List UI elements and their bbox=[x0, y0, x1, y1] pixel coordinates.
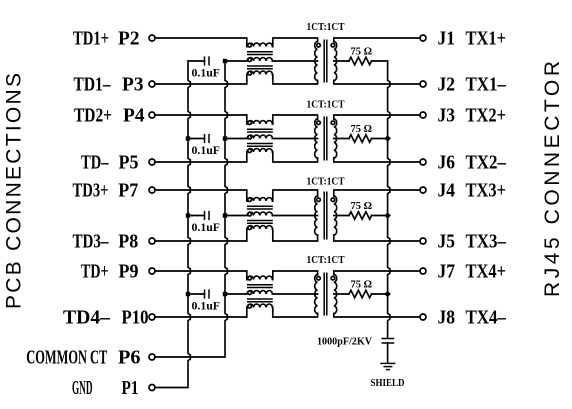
svg-text:TX2–: TX2– bbox=[466, 151, 507, 173]
svg-text:1CT:1CT: 1CT:1CT bbox=[307, 255, 345, 266]
junction on bus at y=216 bbox=[384, 212, 391, 219]
wire secondary center tap to resistor 3 bbox=[334, 215, 349, 217]
wire TD row 2 top (pin to choke) bbox=[155, 115, 247, 124]
choke L1 core lines bbox=[247, 51, 273, 53]
wire secondary top to J pin row 2 bbox=[334, 115, 420, 119]
svg-text:J2: J2 bbox=[438, 73, 456, 95]
GND rail (vertical, with crossover hops) bbox=[155, 61, 190, 388]
pin terminal P10 bbox=[149, 314, 155, 320]
svg-text:P7: P7 bbox=[118, 180, 138, 202]
wire secondary center tap to resistor 4 bbox=[334, 293, 349, 295]
svg-text:1CT:1CT: 1CT:1CT bbox=[307, 22, 345, 33]
transformer T3 primary winding bbox=[315, 196, 318, 235]
pin terminal J3 bbox=[420, 112, 426, 118]
transformer T1 core bbox=[323, 40, 325, 83]
svg-text:TD3–: TD3– bbox=[73, 231, 110, 253]
svg-text:75 Ω: 75 Ω bbox=[351, 201, 373, 212]
wire TD row 4 bottom (pin to choke) bbox=[155, 308, 247, 318]
svg-text:0.1uF: 0.1uF bbox=[192, 299, 221, 313]
wire secondary center tap to resistor 2 bbox=[334, 138, 349, 140]
capacitor 0.1uF #3 plates bbox=[204, 211, 206, 220]
svg-text:P6: P6 bbox=[118, 347, 141, 369]
junction at (225,216) bbox=[223, 213, 227, 217]
pin terminal P4 bbox=[149, 112, 155, 118]
svg-text:J7: J7 bbox=[438, 260, 456, 282]
capacitor 0.1uF #2 left stub bbox=[188, 138, 205, 140]
resistor 75 Ohm #4 bbox=[349, 290, 372, 298]
wire choke to transformer row 2 top bbox=[273, 115, 318, 124]
svg-text:J4: J4 bbox=[438, 179, 456, 201]
common-mode choke L1 middle winding bbox=[225, 58, 272, 61]
capacitor 1000pF/2KV bbox=[382, 338, 395, 340]
svg-text:P8: P8 bbox=[118, 231, 138, 253]
wire resistor 1 to bus bbox=[372, 60, 388, 62]
svg-text:TX4+: TX4+ bbox=[466, 260, 507, 282]
wire choke to transformer center tap row 2 bbox=[272, 138, 317, 140]
svg-text:RJ45 CONNECTOR: RJ45 CONNECTOR bbox=[541, 61, 564, 297]
common-mode choke L1 bottom winding bbox=[247, 71, 272, 74]
wire secondary top to J pin row 3 bbox=[334, 190, 420, 196]
capacitor 0.1uF #1 left stub bbox=[188, 60, 205, 62]
capacitor 0.1uF #4 left stub bbox=[188, 293, 205, 295]
wire choke to transformer row 3 bottom bbox=[273, 229, 318, 241]
common-mode choke L1 top winding bbox=[247, 43, 272, 46]
common-mode choke L4 top winding bbox=[247, 276, 272, 279]
wire resistor 2 to bus bbox=[372, 138, 388, 140]
svg-text:TD1+: TD1+ bbox=[73, 28, 109, 50]
svg-text:TX3+: TX3+ bbox=[466, 179, 507, 201]
svg-text:J1: J1 bbox=[438, 27, 456, 49]
wire TD row 1 bottom (pin to choke) bbox=[155, 75, 247, 85]
svg-text:P1: P1 bbox=[122, 377, 139, 399]
wire TD row 3 top (pin to choke) bbox=[155, 190, 247, 201]
wire choke to transformer center tap row 1 bbox=[272, 60, 317, 62]
pin terminal J6 bbox=[420, 159, 426, 165]
wire choke to transformer row 3 top bbox=[273, 190, 318, 201]
svg-text:P3: P3 bbox=[122, 74, 144, 96]
transformer T1 secondary winding bbox=[334, 42, 337, 81]
svg-text:0.1uF: 0.1uF bbox=[192, 143, 221, 157]
transformer T2 primary winding bbox=[315, 119, 318, 158]
svg-text:P10: P10 bbox=[122, 307, 149, 329]
svg-text:P9: P9 bbox=[119, 261, 139, 283]
capacitor 0.1uF #3 left stub bbox=[188, 215, 205, 217]
pin terminal J7 bbox=[420, 268, 426, 274]
pin terminal P3 bbox=[149, 81, 155, 87]
COMMON CT rail (vertical, with crossover hops) bbox=[155, 61, 227, 357]
transformer T1 primary winding bbox=[315, 42, 318, 81]
pin terminal P2 bbox=[149, 35, 155, 41]
choke L2 core lines bbox=[247, 128, 273, 130]
svg-text:TX4–: TX4– bbox=[466, 306, 507, 328]
svg-text:0.1uF: 0.1uF bbox=[192, 66, 221, 80]
svg-text:GND: GND bbox=[72, 377, 93, 399]
junction at (188,294) bbox=[186, 292, 190, 296]
svg-text:TD4–: TD4– bbox=[63, 307, 111, 329]
wire resistor 3 to bus bbox=[372, 215, 388, 217]
capacitor 0.1uF #1 plates bbox=[204, 56, 206, 65]
wire TD row 1 top (pin to choke) bbox=[155, 38, 247, 47]
common-mode choke L4 bottom winding bbox=[247, 304, 272, 307]
svg-text:1000pF/2KV: 1000pF/2KV bbox=[317, 336, 372, 348]
transformer T3 core bbox=[323, 192, 325, 240]
svg-text:J5: J5 bbox=[438, 230, 456, 252]
junction at (225,294) bbox=[223, 292, 227, 296]
junction at (188,138) bbox=[186, 136, 190, 140]
wire TD row 3 bottom (pin to choke) bbox=[155, 229, 247, 241]
svg-text:TX1+: TX1+ bbox=[466, 27, 507, 49]
transformer T3 secondary winding bbox=[334, 196, 337, 235]
wire secondary bottom to J pin row 2 bbox=[334, 158, 420, 162]
pin terminal J1 bbox=[420, 35, 426, 41]
choke L4 core lines bbox=[247, 284, 273, 286]
pin terminal P6 bbox=[149, 354, 155, 360]
junction at (188,216) bbox=[186, 213, 190, 217]
resistor 75 Ohm #2 bbox=[349, 135, 372, 143]
svg-text:0.1uF: 0.1uF bbox=[192, 220, 221, 234]
transformer T4 secondary winding bbox=[334, 275, 337, 314]
svg-text:1CT:1CT: 1CT:1CT bbox=[307, 100, 345, 111]
wire choke to transformer row 1 bottom bbox=[273, 75, 318, 85]
pin terminal J8 bbox=[420, 314, 426, 320]
wire secondary bottom to J pin row 4 bbox=[334, 314, 420, 318]
wire secondary center tap to resistor 1 bbox=[334, 60, 349, 62]
wire secondary top to J pin row 1 bbox=[334, 38, 420, 42]
common-mode choke L3 bottom winding bbox=[247, 226, 272, 229]
svg-text:TD+: TD+ bbox=[81, 261, 109, 283]
junction on bus at y=138 bbox=[384, 135, 391, 142]
svg-text:TX2+: TX2+ bbox=[466, 104, 507, 126]
pin terminal P9 bbox=[149, 268, 155, 274]
common-mode choke L4 middle winding bbox=[225, 291, 272, 294]
svg-text:J6: J6 bbox=[438, 151, 456, 173]
svg-text:TD1–: TD1– bbox=[74, 74, 112, 96]
wire resistor 4 to bus bbox=[372, 293, 388, 295]
svg-text:TD–: TD– bbox=[81, 152, 109, 174]
pin terminal P8 bbox=[149, 238, 155, 244]
pin terminal P5 bbox=[149, 159, 155, 165]
wire choke to transformer row 4 bottom bbox=[273, 308, 318, 318]
transformer T2 secondary winding bbox=[334, 119, 337, 158]
75-ohm bus (vertical, with crossover hops) bbox=[388, 61, 390, 338]
wire secondary bottom to J pin row 1 bbox=[334, 81, 420, 85]
svg-text:TX1–: TX1– bbox=[466, 73, 507, 95]
wire choke to transformer row 4 top bbox=[273, 271, 318, 280]
ground symbol SHIELD bbox=[380, 362, 395, 364]
pin terminal J2 bbox=[420, 81, 426, 87]
svg-text:TX3–: TX3– bbox=[466, 230, 507, 252]
pin terminal P7 bbox=[149, 187, 155, 193]
wire TD row 2 bottom (pin to choke) bbox=[155, 152, 247, 162]
svg-text:75 Ω: 75 Ω bbox=[351, 280, 373, 291]
resistor 75 Ohm #3 bbox=[349, 212, 372, 220]
common-mode choke L2 top winding bbox=[247, 121, 272, 124]
choke L3 core lines bbox=[247, 205, 273, 207]
wire secondary bottom to J pin row 3 bbox=[334, 235, 420, 241]
common-mode choke L3 middle winding bbox=[225, 212, 272, 215]
transformer T4 primary winding bbox=[315, 275, 318, 314]
svg-text:75 Ω: 75 Ω bbox=[351, 124, 373, 135]
svg-text:P4: P4 bbox=[123, 105, 145, 127]
svg-text:TD2+: TD2+ bbox=[74, 105, 112, 127]
svg-text:TD3+: TD3+ bbox=[73, 180, 109, 202]
junction on bus at y=294 bbox=[384, 291, 391, 298]
svg-text:J3: J3 bbox=[438, 104, 456, 126]
svg-text:COMMON CT: COMMON CT bbox=[26, 347, 107, 369]
svg-text:SHIELD: SHIELD bbox=[371, 377, 405, 389]
wire choke to transformer row 1 top bbox=[273, 38, 318, 47]
svg-text:P5: P5 bbox=[119, 152, 139, 174]
junction at (225,61) bbox=[223, 59, 227, 63]
junction at (225,138) bbox=[223, 136, 227, 140]
svg-text:75 Ω: 75 Ω bbox=[351, 47, 373, 58]
svg-text:PCB CONNECTIONS: PCB CONNECTIONS bbox=[2, 73, 25, 309]
resistor 75 Ohm #1 bbox=[349, 57, 372, 65]
wire choke to transformer center tap row 3 bbox=[272, 215, 317, 217]
transformer T2 core bbox=[323, 117, 325, 161]
transformer T4 core bbox=[323, 273, 325, 316]
wire choke to transformer center tap row 4 bbox=[272, 293, 317, 295]
wire TD row 4 top (pin to choke) bbox=[155, 271, 247, 280]
wire choke to transformer row 2 bottom bbox=[273, 152, 318, 162]
pin terminal P1 bbox=[149, 385, 155, 391]
wire capacitor to ground bbox=[387, 343, 389, 362]
common-mode choke L2 bottom winding bbox=[247, 149, 272, 152]
wire secondary top to J pin row 4 bbox=[334, 271, 420, 275]
capacitor 0.1uF #2 plates bbox=[204, 134, 206, 143]
pin terminal J5 bbox=[420, 238, 426, 244]
capacitor 0.1uF #4 plates bbox=[204, 289, 206, 298]
pin terminal J4 bbox=[420, 187, 426, 193]
svg-text:1CT:1CT: 1CT:1CT bbox=[307, 177, 345, 188]
svg-text:J8: J8 bbox=[438, 306, 456, 328]
common-mode choke L3 top winding bbox=[247, 198, 272, 201]
svg-text:P2: P2 bbox=[118, 28, 140, 50]
common-mode choke L2 middle winding bbox=[225, 135, 272, 138]
